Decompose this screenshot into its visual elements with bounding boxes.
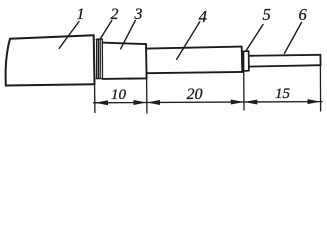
- svg-text:6: 6: [299, 5, 308, 24]
- part 5 collar: [243, 51, 249, 71]
- leader line 2: [100, 21, 112, 40]
- part 1 large cylinder body: [6, 35, 95, 85]
- part 6 rod: [249, 55, 321, 67]
- leader line 1: [59, 22, 79, 49]
- extension line at x=147: [146, 79, 148, 113]
- svg-text:10: 10: [111, 87, 127, 103]
- svg-text:20: 20: [187, 86, 203, 103]
- leader line 5: [246, 25, 263, 51]
- svg-text:1: 1: [77, 6, 85, 23]
- leader line 4: [177, 22, 200, 60]
- svg-text:4: 4: [199, 7, 208, 26]
- leader line 6: [284, 23, 301, 54]
- arrowhead left of segment 10: [95, 100, 108, 105]
- extension line at x=95: [94, 85, 96, 113]
- arrowhead left of segment 20: [147, 100, 160, 105]
- dimension line: [94, 102, 323, 103]
- arrowhead right of segment 15: [308, 99, 321, 104]
- svg-text:5: 5: [263, 5, 271, 24]
- part 2 ring stack: [96, 39, 102, 79]
- arrowhead right of segment 10: [134, 100, 147, 105]
- arrowhead right of segment 20: [231, 100, 244, 105]
- svg-text:15: 15: [275, 86, 291, 102]
- svg-text:2: 2: [111, 6, 119, 23]
- leader line 3: [121, 21, 136, 49]
- part 4 cylinder: [147, 47, 243, 74]
- svg-text:3: 3: [134, 6, 143, 23]
- extension line at x=244: [243, 72, 245, 111]
- arrowhead left of segment 15: [244, 100, 257, 105]
- part 3 cylinder: [103, 43, 147, 79]
- extension line at x=321: [319, 66, 321, 111]
